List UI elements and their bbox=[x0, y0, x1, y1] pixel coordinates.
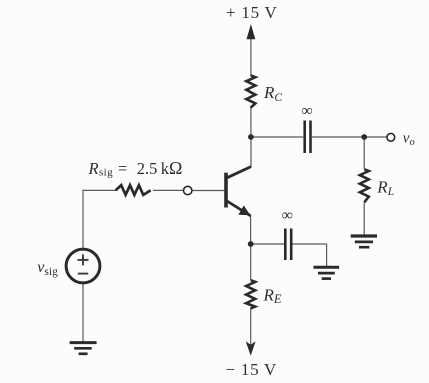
svg-text:RC: RC bbox=[263, 83, 282, 104]
svg-text:vsig: vsig bbox=[37, 259, 58, 278]
svg-text:+ 15 V: + 15 V bbox=[226, 3, 278, 22]
svg-text:∞: ∞ bbox=[281, 207, 292, 224]
svg-text:RE: RE bbox=[263, 285, 282, 306]
svg-text:− 15 V: − 15 V bbox=[226, 360, 278, 379]
svg-text:Rsig=2.5kΩ: Rsig=2.5kΩ bbox=[88, 158, 183, 179]
svg-text:RL: RL bbox=[376, 177, 394, 198]
svg-text:vo: vo bbox=[403, 131, 415, 149]
svg-text:∞: ∞ bbox=[301, 103, 312, 120]
